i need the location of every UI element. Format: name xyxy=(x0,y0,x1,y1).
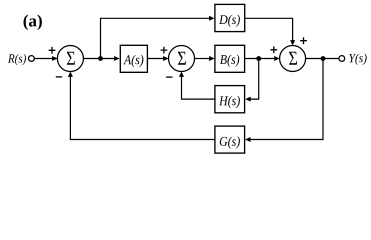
wire node after B(s) down to H(s) xyxy=(245,59,259,102)
wire H(s) to S2 bottom input xyxy=(179,71,215,99)
minus sign at S1 bottom input xyxy=(56,76,62,78)
summing junction S2 xyxy=(169,46,195,72)
summing junction S3 xyxy=(280,46,306,72)
block B(s) xyxy=(215,45,245,72)
block A(s) xyxy=(120,45,147,72)
wire S2 to block B(s) xyxy=(195,56,215,61)
wire A(s) to summer S2 xyxy=(147,56,168,61)
summing junction S1 xyxy=(57,46,83,72)
block D(s) xyxy=(215,4,245,31)
wire G(s) to S1 bottom input xyxy=(68,71,215,139)
block G(s) xyxy=(215,126,245,153)
minus sign at S2 bottom input xyxy=(166,76,172,78)
node branch point after B(s) xyxy=(256,56,261,61)
plus sign at S2 input xyxy=(161,47,168,54)
wire node after S3 down to G(s) xyxy=(245,59,323,143)
wire branch node up to block D(s) xyxy=(101,16,215,59)
node Y(s) output label xyxy=(349,54,367,65)
plus sign at S3 top input xyxy=(300,37,307,44)
wire S3 to Y(s) terminal xyxy=(306,58,339,60)
wire S1 to block A(s) xyxy=(83,56,119,61)
node branch point after S3 xyxy=(321,56,326,61)
label (a) xyxy=(24,15,42,30)
block H(s) xyxy=(215,86,245,113)
wire D(s) to summer S3 top xyxy=(245,18,295,45)
node branch point after S1 xyxy=(98,56,103,61)
wire R(s) terminal to summer S1 xyxy=(34,56,57,61)
node R(s) input label xyxy=(8,54,26,65)
node R(s) input terminal xyxy=(29,56,35,62)
plus sign at S3 left input xyxy=(270,46,277,53)
node Y(s) output terminal xyxy=(339,56,345,62)
wire B(s) to summer S3 xyxy=(245,56,280,61)
plus sign at S1 input xyxy=(49,47,56,54)
